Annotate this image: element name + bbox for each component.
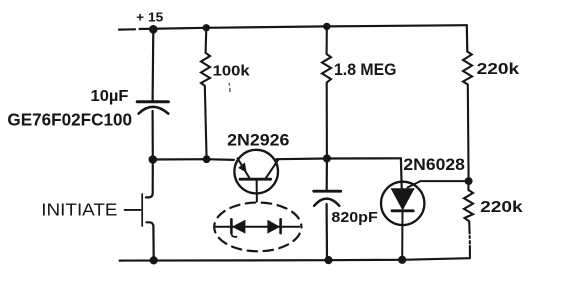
capacitor C2 820pF top lead [326, 159, 328, 191]
resistor R1 100k [201, 28, 210, 159]
node junction dot bottom-left [150, 256, 158, 264]
wire INITIATE lead [125, 209, 141, 211]
node junction dot mid-left [149, 155, 158, 164]
svg-text:220k: 220k [480, 199, 523, 216]
switch S1 INITIATE upper contact [146, 160, 153, 198]
wire mid rail right of Q1 [277, 157, 401, 160]
node junction dot top 1.8MEG [323, 23, 330, 30]
svg-text:10µF: 10µF [91, 88, 129, 105]
PUT Q2 2N6028 anode lead [400, 158, 403, 188]
svg-text:GE76F02FC100: GE76F02FC100 [7, 109, 132, 129]
svg-text:220k: 220k [477, 61, 520, 78]
capacitor C2 bottom lead [326, 204, 329, 260]
wire gate of Q2 to 220k junction [408, 181, 469, 187]
node junction dot top-left [149, 25, 158, 34]
diode D2 right [267, 219, 280, 233]
switch S1 actuator bar [141, 194, 143, 226]
node junction dot bottom 820pF [324, 256, 332, 264]
svg-text:+ 15: + 15 [136, 9, 163, 24]
capacitor C1 10uF [137, 102, 168, 114]
artifact dots below 100k [228, 84, 231, 92]
node junction dot bottom PUT cathode [398, 256, 406, 264]
diode D1 left [231, 219, 245, 237]
svg-text:2N2926: 2N2926 [227, 130, 289, 149]
wire capacitor top lead [152, 29, 155, 100]
node junction dot top 100k [203, 24, 210, 31]
wire mid rail left [153, 158, 234, 161]
svg-text:1.8 MEG: 1.8 MEG [334, 61, 397, 79]
wire diode line [215, 226, 299, 228]
svg-text:820pF: 820pF [331, 209, 377, 226]
wire bottom rail [120, 258, 470, 260]
capacitor C2 820pF [314, 191, 341, 206]
wire capacitor bottom lead [152, 111, 154, 160]
transistor Q1 2N2926 [234, 150, 278, 202]
wire right rail top corner down to 220k [466, 25, 469, 51]
dashed ellipse diode note [214, 203, 301, 252]
svg-text:INITIATE: INITIATE [41, 199, 117, 219]
node junction dot mid 820pF [323, 154, 331, 162]
svg-text:100k: 100k [213, 62, 251, 79]
node junction dot mid 100k [203, 155, 211, 163]
PUT Q2 2N6028 [381, 182, 424, 260]
node junction dot gate/220k [465, 177, 473, 185]
svg-text:2N6028: 2N6028 [403, 155, 465, 174]
resistor R3 220k upper [463, 52, 472, 182]
wire top rail [119, 25, 467, 29]
resistor R4 220k lower [464, 181, 473, 258]
switch S1 lower contact [147, 222, 154, 260]
resistor R2 1.8MEG [322, 26, 331, 158]
